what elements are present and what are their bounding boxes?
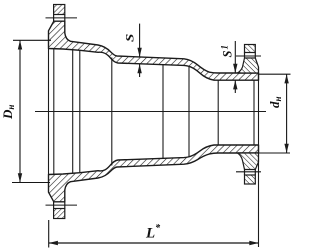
arrow S down	[137, 48, 141, 57]
arrow L* left	[49, 241, 58, 245]
bore transition line 2	[162, 64, 164, 159]
arrow L* right	[249, 241, 258, 245]
arrow S up	[137, 64, 141, 73]
flange D bolt hole centerline bottom	[46, 204, 78, 206]
flange d ring block bottom	[245, 170, 256, 185]
arrow S1 down	[233, 64, 237, 73]
flange D ring block bottom	[54, 202, 65, 219]
arrow d_H bottom	[284, 144, 288, 153]
dimension d_H	[256, 74, 291, 153]
flange d hub top	[238, 58, 259, 73]
arrow d_H top	[284, 74, 288, 83]
right flange face line	[258, 67, 260, 247]
bore line hub back 1	[72, 50, 74, 174]
arrow D_H bottom	[18, 173, 22, 182]
dimension line	[49, 242, 259, 244]
bore line at left face	[48, 49, 50, 175]
dimension L*	[49, 220, 259, 248]
extension line bottom	[12, 182, 50, 184]
axis centerline	[35, 111, 266, 113]
bore step line at left face	[53, 49, 55, 175]
dimension S1	[234, 41, 236, 93]
svg-text:S: S	[123, 34, 136, 42]
bore transition line 1	[111, 58, 113, 166]
flange d hub bottom	[238, 153, 259, 170]
flange D bolt hole centerline top	[46, 17, 78, 19]
wall section lower half (hatched)	[49, 145, 259, 202]
bore transition line 3	[188, 66, 190, 157]
arrow S1 up	[233, 80, 237, 89]
flange d ring block top	[245, 45, 256, 59]
bore transition line 4	[217, 80, 219, 145]
extension line top	[13, 39, 51, 41]
flange D ring block top	[54, 5, 65, 22]
flange d bolt hole centerline bottom	[236, 171, 261, 173]
bore step line at right face	[253, 80, 255, 145]
dimension S	[139, 24, 141, 77]
dimension line	[19, 40, 21, 182]
arrow D_H top	[18, 40, 22, 49]
dimension D_H	[12, 40, 51, 182]
extension line left	[48, 220, 50, 248]
bore line hub back 2	[79, 50, 81, 173]
flange d bolt hole centerline top	[236, 55, 261, 57]
wall section upper half (hatched)	[49, 21, 259, 80]
